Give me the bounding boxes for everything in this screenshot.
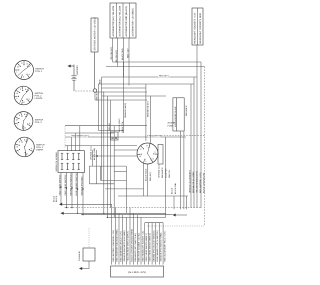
left arrow 2 [61,212,66,215]
wire y222.7 [145,222,163,224]
svg-text:BLACK (GROUND WI): BLACK (GROUND WI) [202,172,205,193]
wire x96.3 [95,150,97,184]
bottom pins right group [145,223,163,265]
svg-text:GRAY (SEAT SWITCH): GRAY (SEAT SWITCH) [58,174,61,195]
wire x110.4 [109,100,111,208]
starter wire [94,52,96,89]
fuse box [173,98,184,131]
starter box [91,17,98,52]
junction dots band [60,204,108,218]
svg-text:RED/WHITE: RED/WHITE [185,105,188,116]
fuse inner divider [176,98,178,131]
wire bus y62 [113,61,202,63]
svg-text:RED/WHITE: RED/WHITE [149,135,162,138]
svg-text:BLACK GND: BLACK GND [174,182,177,194]
right wire labels [188,170,205,193]
svg-text:ALTERNATOR (AC) YELLOW: ALTERNATOR (AC) YELLOW [119,5,122,36]
wire x126.4 seg [125,166,127,213]
svg-text:ALTERNATOR GND (BLACK): ALTERNATOR GND (BLACK) [125,6,128,37]
fuse label [168,122,176,128]
svg-text:LIGHTS: LIGHTS [35,97,43,100]
relay labels [108,118,124,133]
ignition switch position circle 3 [14,112,43,131]
svg-text:RED/WHITE (B+ WIRE): RED/WHITE (B+ WIRE) [192,171,195,193]
bottom connector pins left group [112,204,141,264]
svg-text:ORANGE (ACC): ORANGE (ACC) [90,146,93,160]
wire y137 [65,136,186,138]
svg-text:RED/WHITE: RED/WHITE [161,167,164,178]
headlight wire [196,45,198,62]
bottom connector box [111,266,164,277]
svg-text:RED (BATTERY SOLENOID +12V): RED (BATTERY SOLENOID +12V) [112,230,115,262]
dashed wire x204.5 [204,67,206,227]
ignition switch position circle 1 [15,61,45,80]
interlock pin dots [60,186,83,189]
ignition switch position circle 2 [14,86,43,105]
wire bus y66.5 [106,66,205,68]
left arrow 1 [59,203,63,206]
wire x201 [200,62,202,208]
solenoid box [83,248,95,261]
svg-text:AMMETER: AMMETER [165,168,168,178]
svg-text:ORANGE (PTO SWITCH WIRE): ORANGE (PTO SWITCH WIRE) [160,232,163,261]
svg-text:BROWN (PTO CLUTCH SWITCH): BROWN (PTO CLUTCH SWITCH) [152,230,155,261]
interlock feed drops [67,126,79,151]
svg-text:RED (ACCESSORY PLUG +12V): RED (ACCESSORY PLUG +12V) [163,231,166,261]
wire y188.9 [105,188,143,190]
wire x114.2 [113,126,115,218]
wire x100.5 seg [100,166,102,180]
svg-text:YELLOW (SEAT): YELLOW (SEAT) [118,118,121,133]
svg-text:RED/WHITE (B+): RED/WHITE (B+) [147,101,150,117]
wire x89.4 [88,166,90,184]
mid-right labels [171,182,178,194]
svg-text:BLACK: BLACK [53,195,56,202]
svg-text:BROWN (PTO SWITCH): BROWN (PTO SWITCH) [69,173,72,195]
svg-text:YELLOW (SEAT SWITCH INPUT): YELLOW (SEAT SWITCH INPUT) [127,231,130,262]
alternator pin wires [113,38,130,86]
interlock pin wires [61,173,83,215]
key switch top wire [150,96,152,143]
wire x186.6 stub [186,196,188,209]
left bottom labels [53,195,59,202]
svg-text:RED +12V: RED +12V [126,48,129,58]
wire y166.1 [89,165,126,167]
svg-text:BLACK (MAG): BLACK (MAG) [144,168,147,181]
key switch side loop [158,145,163,165]
wire y96 [102,95,167,97]
battery arrow symbol [68,64,79,91]
wire y133 [65,132,114,134]
svg-text:POS. 3: POS. 3 [35,121,43,124]
svg-text:ORANGE (ACC): ORANGE (ACC) [158,164,161,178]
svg-text:SOLENOID: SOLENOID [78,251,81,261]
ignition switch position circle 4 [15,137,45,157]
svg-text:RED (AMMETER CIRCUIT +12V): RED (AMMETER CIRCUIT +12V) [119,231,122,261]
svg-text:BLACK GND: BLACK GND [121,48,124,60]
wire y100 [95,99,147,101]
ground arrow right [173,214,188,217]
wire label RED B+ [158,74,169,78]
wire y207.6 [65,207,202,209]
svg-text:GRAY (SEAT SWITCH): GRAY (SEAT SWITCH) [64,174,67,195]
svg-text:RED (HEADLIGHT SOCKET +12): RED (HEADLIGHT SOCKET +12) [141,231,144,262]
wire y214.7 [81,214,173,216]
mid labels [90,146,97,160]
svg-text:YELLOW (HEADLIGHT): YELLOW (HEADLIGHT) [195,171,198,193]
svg-text:RED (STARTER SOLENOID WIRE): RED (STARTER SOLENOID WIRE) [116,229,119,261]
wire y125.7 [65,125,147,127]
svg-text:GRAY (SEAT SWITCH WIRE 2): GRAY (SEAT SWITCH WIRE 2) [149,233,152,262]
wire x92.3 elbow [91,150,93,166]
svg-text:L: L [18,151,19,154]
key switch left stubs [92,150,137,156]
wire x197 [196,62,198,208]
svg-text:L: L [146,160,147,163]
key switch circle [137,143,158,164]
wire x194 [193,77,195,208]
dashed battery wire [75,90,93,92]
wire bus y77 [102,76,198,78]
wire y145.5 [65,145,137,147]
wire x95 stub [94,92,96,100]
wire x145.9 [145,84,147,141]
svg-text:RED (BAT): RED (BAT) [149,171,152,181]
svg-text:BATTERY: BATTERY [76,64,79,74]
key switch bottom wires [144,164,148,196]
svg-text:RED (BATTERY +12V): RED (BATTERY +12V) [199,172,202,193]
svg-text:L: L [17,97,18,100]
junction node circle [93,89,96,92]
svg-text:ALTERNATOR (AC) YELLOW: ALTERNATOR (AC) YELLOW [112,5,115,36]
svg-text:FUSE: FUSE [168,124,174,127]
svg-text:BLUE (BRAKE CLUTCH SWITCH): BLUE (BRAKE CLUTCH SWITCH) [156,230,159,261]
svg-text:RED: RED [98,79,101,84]
svg-text:HEADLIGHT SOCKETS GND.: HEADLIGHT SOCKETS GND. [199,12,202,43]
seat relay box [111,132,119,140]
svg-text:L: L [17,124,18,127]
headlights connector [192,8,203,45]
junction dot y156 [97,155,98,156]
svg-text:INTERLOCK MODULE: INTERLOCK MODULE [55,151,58,171]
solenoid ground wire [79,261,89,270]
svg-text:(ALL RED +12V): (ALL RED +12V) [128,271,146,274]
wire bus y85.5 [98,83,194,85]
wire x174 stub [173,196,175,209]
svg-text:ORANGE (MAGNETO KILL WIRE): ORANGE (MAGNETO KILL WIRE) [123,230,126,261]
svg-text:HEADLIGHT SOCKETS +12V: HEADLIGHT SOCKETS +12V [194,12,197,43]
wire y130.4 [98,129,123,131]
dashed wire y135.5 [147,135,205,137]
wire x191 [190,84,192,208]
solenoid feed dotted [88,228,90,248]
svg-text:ALTERNATOR +12V (RED): ALTERNATOR +12V (RED) [132,8,135,36]
svg-text:YELLOW (AC): YELLOW (AC) [115,50,118,63]
svg-text:POS. 1: POS. 1 [35,70,43,73]
wire x98.3 [97,84,99,130]
wire y183.8 [89,183,114,185]
svg-text:START: START [36,148,44,151]
wire x103.8 [103,92,105,214]
svg-text:RELAY COIL: RELAY COIL [121,122,124,133]
svg-text:GRAY (SEAT SWITCH WIRE 1): GRAY (SEAT SWITCH WIRE 1) [145,233,148,262]
svg-text:BLACK: BLACK [171,187,174,194]
svg-text:RED/WHITE (KEY SWITCH B+): RED/WHITE (KEY SWITCH B+) [134,233,137,262]
svg-text:ORANGE (ACCESSORY): ORANGE (ACCESSORY) [188,170,191,193]
svg-text:ORANGE (PTO SW.): ORANGE (PTO SW.) [80,176,83,195]
svg-text:RED (B+): RED (B+) [159,75,169,78]
wire y213.3 [65,212,166,214]
interlock pin labels [58,173,83,196]
svg-text:20 AMP: 20 AMP [168,122,176,125]
svg-text:RED/WHITE (B+): RED/WHITE (B+) [72,135,89,138]
svg-text:BLUE (BRAKE SWITCH): BLUE (BRAKE SWITCH) [75,173,78,196]
wire x183.9 [183,131,185,209]
dotted border left [64,126,66,148]
wire y171.6 [114,171,126,173]
svg-text:L: L [17,71,18,74]
key switch labels [144,164,171,181]
svg-text:BLACK (GND): BLACK (GND) [93,147,96,160]
alternator wire labels [110,47,129,63]
wire label red/white left [71,134,89,138]
svg-text:RED (FUSE HOLDER +12V IN): RED (FUSE HOLDER +12V IN) [138,233,141,262]
svg-text:YELLOW: YELLOW [108,123,111,131]
wire x101.5 [101,77,103,180]
bottom pin labels [112,229,166,262]
wire x176 [180,131,182,209]
wire y217.4 [107,216,165,218]
wire y196 [118,195,188,197]
wire label red/white right [148,134,162,138]
wire x107.4 [106,96,108,217]
svg-text:YELLOW (AC): YELLOW (AC) [110,47,113,60]
wire y204.3 [63,203,112,205]
wire x165.7 [165,137,167,217]
svg-text:STARTER MOTOR +12V (RED): STARTER MOTOR +12V (RED) [93,17,96,50]
interlock connector block [55,151,85,173]
alternator connector [110,3,136,38]
svg-text:YELLOW: YELLOW [168,170,171,178]
wire y180.4 [101,179,127,181]
wire bus y88 [102,87,146,89]
dotted y227.5 [147,225,205,227]
svg-text:ORANGE (MAG): ORANGE (MAG) [124,103,127,118]
svg-text:BLACK (CHASSIS GROUND WIRE): BLACK (CHASSIS GROUND WIRE) [130,229,133,262]
wire y91.5 [97,91,147,93]
wire x125.3 [123,62,125,133]
